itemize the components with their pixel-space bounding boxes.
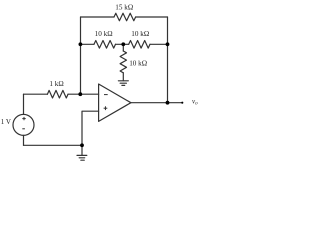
resistor R5 1 kOhm	[47, 90, 68, 98]
junction node B	[121, 42, 125, 46]
svg-text:1 kΩ: 1 kΩ	[49, 80, 63, 88]
wire R3 to right vertical	[150, 43, 168, 45]
svg-text:15 kΩ: 15 kΩ	[115, 4, 133, 12]
junction node A	[79, 42, 83, 46]
terminal vo	[181, 102, 183, 104]
resistor R1 15 kOhm	[114, 13, 136, 21]
ground G1	[118, 81, 128, 86]
wire R4 to ground	[122, 73, 124, 81]
wire 15k to top-right corner	[136, 16, 168, 18]
resistor R4 10 kOhm vertical	[120, 51, 126, 73]
wire source bottom	[23, 135, 25, 145]
voltage source V1 1V	[13, 114, 34, 135]
source plus sign	[22, 117, 25, 120]
wire node A to R2	[81, 43, 95, 45]
op-amp plus sign	[104, 106, 108, 110]
wire source to R5	[24, 93, 48, 95]
wire node B down to R4	[122, 44, 124, 51]
op-amp minus sign	[104, 94, 108, 96]
resistor R3 10 kOhm	[129, 41, 150, 49]
svg-text:10 kΩ: 10 kΩ	[129, 60, 147, 68]
junction output node	[166, 101, 170, 105]
wire output	[131, 102, 181, 104]
svg-text:10 kΩ: 10 kΩ	[131, 30, 149, 38]
wire top-left segment to 15k	[81, 16, 115, 18]
svg-text:10 kΩ: 10 kΩ	[95, 30, 113, 38]
wire ground stub	[81, 145, 83, 155]
op-amp U1	[99, 84, 131, 121]
svg-text:1 V: 1 V	[1, 118, 11, 126]
wire source top	[23, 94, 25, 114]
wire noninverting input	[82, 111, 99, 145]
source minus sign	[22, 128, 25, 130]
resistor R2 10 kOhm	[94, 41, 116, 49]
svg-text:vo: vo	[192, 97, 198, 106]
junction node C	[166, 42, 170, 46]
wire bottom	[24, 144, 83, 146]
wire R5 to inverting input	[68, 93, 99, 95]
wire R2 to node B	[116, 43, 129, 45]
junction ground node	[80, 143, 84, 147]
wire left vertical (inverting node)	[80, 17, 82, 94]
ground G2	[77, 155, 87, 160]
junction inverting input node	[78, 92, 82, 96]
wire right vertical (output to feedback)	[167, 17, 169, 103]
